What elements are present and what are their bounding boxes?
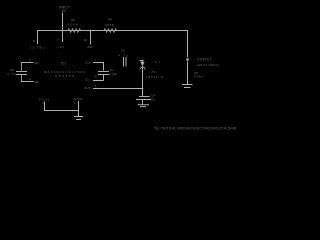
svg-text:C2: C2 [121,49,125,53]
pin 8 stub [37,31,39,44]
svg-text:MAX1044/ICL7660: MAX1044/ICL7660 [44,70,85,74]
IC pin GND [78,101,80,116]
svg-text:10: 10 [84,38,88,42]
IC pin OUT [93,88,99,90]
wire top rail [37,30,188,32]
junction node rail/pin7 [62,30,64,32]
wire [103,75,105,81]
IC pin C1+ [93,63,104,71]
svg-text:10µ: 10µ [150,70,156,74]
wire [142,66,144,97]
svg-text:47µ: 47µ [150,98,155,102]
svg-text:4.7µ: 4.7µ [7,72,16,76]
capacitor C4 [136,97,151,100]
svg-text:*B1 CRITICAL BRIDGE/INJECTOR/C: *B1 CRITICAL BRIDGE/INJECTOR/CIRCUIT/4.5… [154,126,236,130]
svg-text:R4: R4 [108,17,112,21]
svg-text:4.7µ: 4.7µ [118,54,128,58]
wire out run [99,88,143,90]
wire [21,75,23,82]
svg-text:470µ*: 470µ* [194,75,205,79]
resistor R5 [68,29,81,33]
wire output vertical [187,31,189,58]
ground right [182,85,193,88]
output arrow [186,59,189,62]
IC pin C1- [93,80,104,82]
pin 7 stub [62,31,64,42]
capacitor C2 [124,57,127,67]
junction node rail/pin10 [90,30,92,32]
svg-text:560R: 560R [105,23,115,27]
svg-text:P(LV): P(LV) [39,97,49,101]
svg-text:C1+: C1+ [85,61,91,65]
IC pin 2 left [21,81,34,83]
capacitor C1 [98,72,109,75]
svg-text:(CF): (CF) [34,61,39,65]
capacitor C3 [16,72,27,75]
diode D1 [140,60,144,62]
svg-text:OUT: OUT [84,86,91,90]
junction node out/diode [142,88,144,90]
svg-text:C1-: C1- [85,78,90,82]
resistor R4 [104,29,117,33]
svg-text:(PH): (PH) [87,45,94,49]
svg-text:IC1: IC1 [61,62,66,66]
svg-text:6V: 6V [62,9,67,13]
IC pin 6 left [21,62,34,64]
IC pin LV [45,102,79,111]
svg-text:4.7µF: 4.7µF [109,72,117,76]
svg-text:+6V AT 130mA: +6V AT 130mA [196,63,220,67]
svg-text:(1N): (1N) [34,80,39,84]
svg-text:OUTPUT: OUTPUT [197,58,212,62]
wire output lower [187,62,189,84]
svg-text:R5: R5 [71,18,75,22]
svg-text:L8042/-8: L8042/-8 [146,75,163,79]
svg-text:K1: K1 [155,60,161,64]
wire [21,63,23,71]
svg-text:100K: 100K [68,23,78,27]
svg-text:(IN): (IN) [57,45,64,49]
pin 10 stub [90,31,92,45]
ground center-right [138,100,150,107]
ground left [74,117,83,120]
svg-text:GND: GND [74,97,83,101]
wire input drop [62,13,64,31]
